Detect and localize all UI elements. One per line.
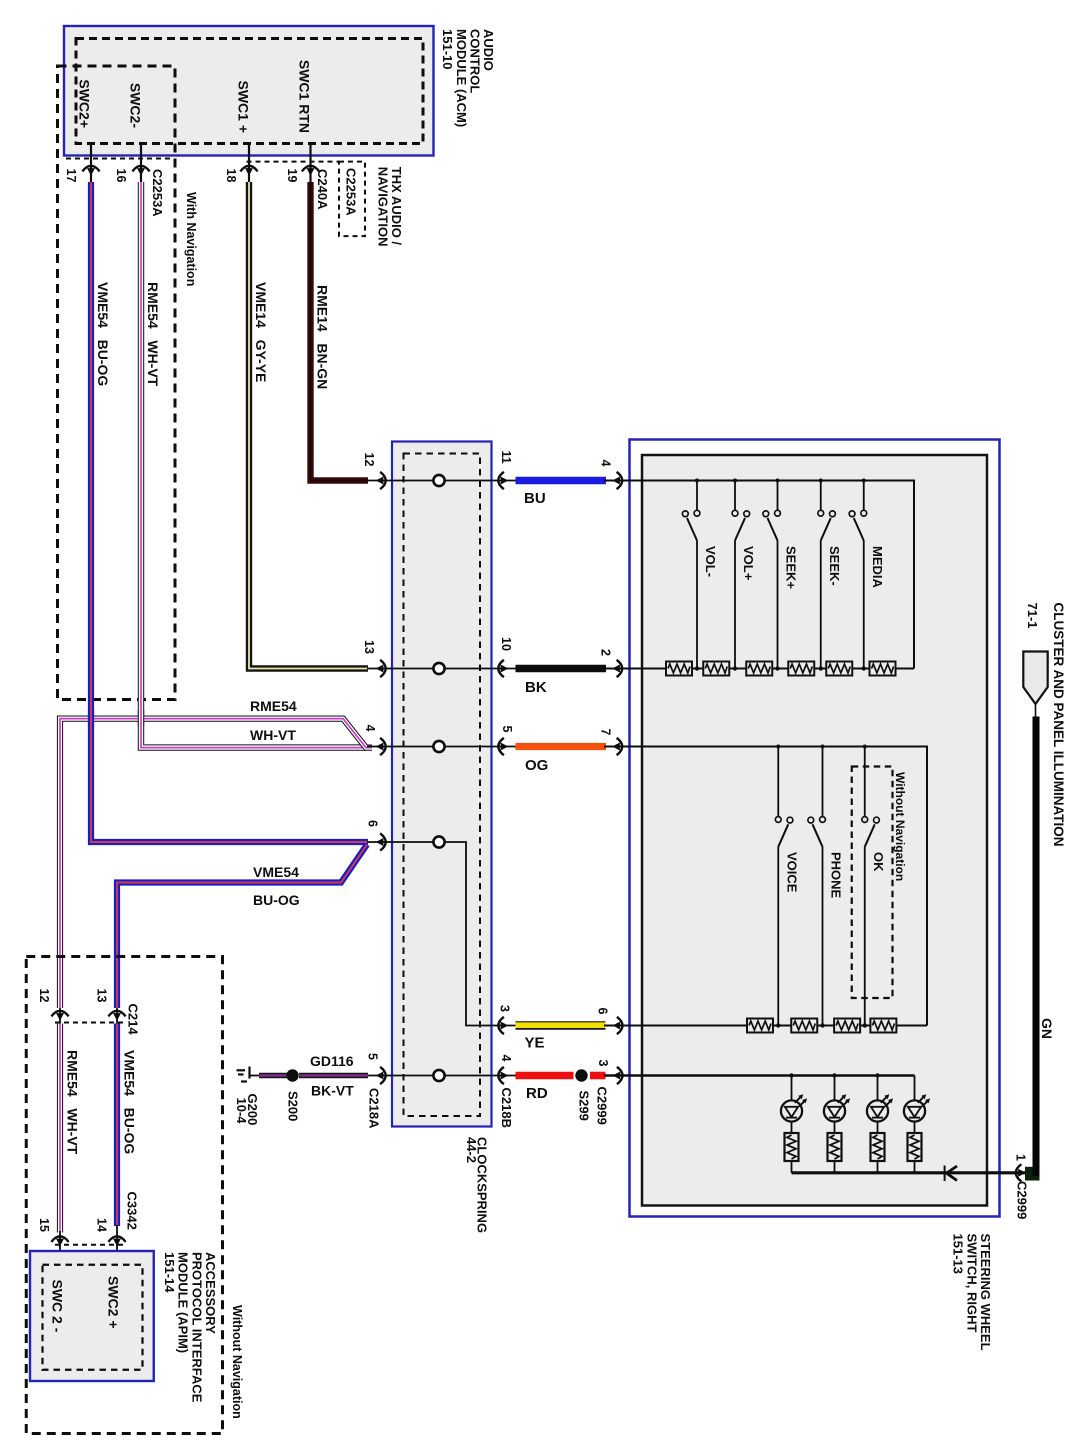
svg-text:C2999: C2999 — [1015, 1181, 1030, 1219]
arrow pin 5 right — [498, 738, 508, 755]
label THX AUDIO / NAVIGATION — [375, 167, 404, 247]
svg-text:SWC1 +: SWC1 + — [236, 80, 252, 133]
svg-text:2: 2 — [599, 649, 613, 656]
arrow pin 4 right — [498, 1067, 508, 1084]
svg-text:RME54: RME54 — [250, 698, 297, 714]
svg-text:RD: RD — [526, 1085, 548, 1102]
splice S200 — [286, 1069, 298, 1081]
LED column 2 — [824, 1076, 850, 1173]
svg-text:GN: GN — [1039, 1018, 1055, 1039]
svg-text:Without Navigation: Without Navigation — [230, 1305, 244, 1419]
resistor R3 — [746, 662, 772, 676]
svg-text:VME54 BU-OG: VME54 BU-OG — [122, 1050, 138, 1154]
svg-text:YE: YE — [525, 1035, 545, 1052]
switch SEEK- — [818, 481, 836, 669]
wire crossing overlay pin17 — [88, 710, 94, 728]
svg-text:14: 14 — [95, 1218, 109, 1232]
clockspring contact row D — [433, 836, 444, 847]
svg-text:3: 3 — [498, 1005, 512, 1012]
wire OG — [516, 743, 607, 750]
svg-text:C218B: C218B — [499, 1088, 514, 1128]
module clockspring box — [392, 442, 492, 1127]
svg-text:71-1: 71-1 — [1025, 603, 1040, 629]
svg-text:VME54 BU-OG: VME54 BU-OG — [95, 282, 111, 386]
svg-text:151-13: 151-13 — [951, 1234, 966, 1274]
svg-text:PHONE: PHONE — [829, 852, 844, 899]
wire VME54 BU-OG from ACM pin 17 — [91, 182, 368, 842]
label CLOCKSPRING 44-2 — [464, 1137, 490, 1233]
clockspring contact row A — [433, 475, 444, 486]
arrow switch pin 3 — [613, 1067, 623, 1084]
APIM pin 14 stub — [116, 1246, 118, 1265]
pin 17 arrow — [82, 166, 99, 176]
Without Navigation dashed box upper — [852, 767, 893, 999]
svg-text:11: 11 — [499, 451, 513, 464]
wire RD segment 2 — [590, 1072, 606, 1080]
arrow C2999 pin 1 — [1016, 1164, 1026, 1181]
svg-text:13: 13 — [362, 640, 376, 654]
svg-text:C3342: C3342 — [125, 1192, 140, 1230]
pentagon stub wire — [1035, 704, 1037, 717]
clockspring row B wire (pins 13-10) — [367, 668, 516, 670]
LED column 1 — [781, 1076, 807, 1173]
svg-text:SEEK-: SEEK- — [827, 546, 842, 586]
svg-text:SWC2 +: SWC2 + — [106, 1276, 122, 1329]
ground G200 symbol — [237, 1067, 261, 1082]
Without Navigation dashed option box bottom — [26, 957, 222, 1434]
svg-text:C2999: C2999 — [595, 1087, 610, 1125]
module APIM box — [30, 1251, 154, 1381]
wire stub through C214 pin 13 — [116, 1008, 118, 1024]
clockspring contact row C — [433, 741, 444, 752]
svg-text:6: 6 — [596, 1008, 610, 1015]
wire stub through C3342 pin 15 — [59, 1231, 61, 1247]
svg-text:12: 12 — [37, 989, 51, 1003]
junction dots LED row — [789, 1073, 879, 1077]
svg-text:With Navigation: With Navigation — [184, 192, 198, 286]
svg-text:C2253A: C2253A — [344, 168, 359, 216]
switch pin 4 wire bus — [604, 481, 914, 669]
svg-text:C218A: C218A — [367, 1088, 382, 1129]
APIM inner dashed box — [43, 1265, 143, 1370]
switch pin 7 wire bus — [604, 747, 927, 1026]
resistor R2 — [703, 662, 729, 676]
svg-text:6: 6 — [366, 820, 380, 827]
arrow pin 11 — [498, 472, 508, 489]
wire RME54 WH-VT lower — [57, 1024, 63, 1233]
arrow C214 pin 13 — [108, 1011, 125, 1021]
connector C240A dashed line pins 18/19 — [247, 161, 340, 163]
clockspring contact row E — [433, 1070, 444, 1081]
resistor R7 — [747, 1019, 773, 1033]
svg-text:CLUSTER AND PANEL ILLUMINATION: CLUSTER AND PANEL ILLUMINATION — [1051, 603, 1066, 847]
svg-text:1: 1 — [1014, 1154, 1028, 1161]
junction dots resistor row 1 — [695, 666, 866, 670]
label STEERING WHEEL SWITCH, RIGHT 151-13 — [951, 1234, 993, 1351]
svg-text:4: 4 — [599, 460, 613, 467]
arrow pin 4 left — [376, 738, 386, 755]
LED column 3 — [867, 1076, 893, 1173]
svg-text:3: 3 — [596, 1060, 610, 1067]
clockspring row C wire (pins 4-5) — [367, 746, 516, 748]
svg-text:GD116: GD116 — [310, 1053, 354, 1069]
pin 18 arrow — [240, 166, 257, 176]
ACM pin 19 stub wire — [309, 144, 311, 184]
ACM pin 16 stub wire — [140, 144, 142, 184]
diode D1 — [945, 1166, 957, 1182]
svg-text:VME14 GY-YE: VME14 GY-YE — [253, 282, 269, 382]
connector C2253A dashed line pins 17/16 — [66, 158, 174, 160]
connector C214 dashed line — [55, 1022, 123, 1024]
wire stub through C214 pin 12 — [59, 1008, 61, 1024]
svg-text:SWC2-: SWC2- — [128, 83, 144, 128]
junction dots bus row 2 — [776, 745, 867, 749]
connector C3342 dashed line — [55, 1244, 123, 1246]
wire VME54 BU-OG lower — [114, 1024, 120, 1227]
wire VME14 GY-YE from ACM pin 18 — [249, 182, 368, 669]
svg-text:5: 5 — [500, 726, 514, 733]
svg-text:OG: OG — [525, 757, 548, 774]
arrow switch pin 2 — [612, 660, 622, 677]
wire GN thick — [1033, 717, 1040, 1177]
arrow APIM pin 14 — [108, 1236, 125, 1246]
svg-text:BK-VT: BK-VT — [311, 1083, 354, 1099]
wire RME54 WH-VT horizontal run — [60, 719, 372, 1008]
wire stub through C3342 pin 14 — [116, 1225, 118, 1247]
svg-text:S299: S299 — [577, 1091, 592, 1121]
svg-text:BU-OG: BU-OG — [253, 892, 300, 908]
svg-text:12: 12 — [362, 453, 376, 467]
svg-text:4: 4 — [363, 725, 377, 732]
arrow pin 10 — [498, 660, 508, 677]
svg-text:RME54 WH-VT: RME54 WH-VT — [145, 282, 161, 387]
clockspring row A wire (pins 12-11) — [367, 480, 516, 482]
arrow C214 pin 12 — [51, 1011, 68, 1021]
junction dots top bus row 1 — [695, 479, 866, 483]
svg-text:151-14: 151-14 — [162, 1252, 177, 1293]
svg-text:SEEK+: SEEK+ — [784, 546, 799, 589]
label ACCESSORY PROTOCOL INTERFACE MODULE (APIM) 151-14 — [162, 1252, 218, 1403]
svg-text:44-2: 44-2 — [464, 1137, 479, 1163]
arrow pin 5 left — [376, 1067, 386, 1084]
ACM inner dashed connector box — [76, 39, 423, 144]
svg-text:19: 19 — [285, 169, 299, 183]
svg-text:C2253A: C2253A — [150, 169, 165, 217]
wire YE — [516, 1021, 606, 1030]
svg-text:13: 13 — [95, 989, 109, 1003]
wire BK — [516, 665, 607, 673]
switch pin 6 resistor row wire — [604, 1025, 927, 1027]
switch VOL+ — [732, 481, 750, 669]
resistor R10 — [870, 1019, 896, 1033]
svg-text:Without Navigation: Without Navigation — [893, 772, 907, 881]
module ACM box — [64, 26, 434, 156]
arrow pin 12 — [376, 472, 386, 489]
svg-text:WH-VT: WH-VT — [250, 727, 296, 743]
svg-text:VME54: VME54 — [253, 864, 299, 880]
svg-text:SWC 2 -: SWC 2 - — [50, 1280, 66, 1333]
switch pin 2 resistor row wire — [604, 668, 914, 670]
arrow APIM pin 15 — [51, 1236, 68, 1246]
svg-text:VOICE: VOICE — [784, 852, 799, 893]
svg-text:RME14 BN-GN: RME14 BN-GN — [315, 285, 331, 389]
switch SEEK+ — [763, 481, 781, 669]
wire BU — [516, 477, 607, 485]
connector C2253A dashed box (THX) — [339, 162, 365, 237]
clockspring row E wire (pins 5-4) — [367, 1075, 516, 1077]
ACM pin 18 stub wire — [248, 144, 250, 184]
arrow switch pin 6 — [613, 1017, 623, 1034]
off-page connector pentagon 71-1 — [1023, 652, 1047, 705]
svg-text:S200: S200 — [286, 1091, 301, 1121]
ACM pin 17 stub wire — [90, 144, 92, 184]
wire RD segment 1 — [516, 1072, 574, 1080]
APIM pin 15 stub — [59, 1246, 61, 1265]
arrow switch pin 7 — [612, 738, 622, 755]
svg-text:C240A: C240A — [315, 169, 330, 210]
pin 19 arrow — [302, 166, 319, 176]
LED bottom bus wire — [792, 1171, 1027, 1174]
svg-text:18: 18 — [224, 169, 238, 183]
svg-text:SWC1 RTN: SWC1 RTN — [297, 60, 313, 133]
label AUDIO CONTROL MODULE (ACM) 151-10 — [440, 29, 496, 127]
svg-text:10-4: 10-4 — [234, 1098, 249, 1125]
svg-text:BK: BK — [525, 679, 547, 696]
clockspring inner dashed box — [404, 454, 481, 1117]
svg-text:RME54 WH-VT: RME54 WH-VT — [65, 1050, 81, 1155]
switch MEDIA — [849, 481, 867, 669]
module steering wheel switch box — [630, 440, 1000, 1217]
resistor R8 — [791, 1019, 817, 1033]
svg-text:OK: OK — [871, 852, 886, 872]
clockspring row D wire (pin 6 to pin 3 jog) — [367, 842, 516, 1026]
resistor R6 — [870, 662, 896, 676]
clockspring contact row B — [433, 663, 444, 674]
resistor R4 — [788, 662, 814, 676]
switch OK — [862, 747, 880, 1026]
resistor R5 — [826, 662, 852, 676]
svg-text:4: 4 — [499, 1055, 513, 1062]
svg-text:SWC2+: SWC2+ — [77, 79, 93, 128]
svg-text:VOL-: VOL- — [703, 546, 718, 577]
With Navigation dashed option box — [58, 66, 176, 700]
svg-text:17: 17 — [64, 169, 78, 183]
wire RME54 WH-VT from ACM pin 16 — [141, 182, 366, 748]
svg-text:151-10: 151-10 — [440, 29, 455, 69]
wire VME54 BU-OG lower run to APIM branch — [117, 845, 367, 1009]
switch PHONE — [808, 747, 826, 1026]
wire crossing overlay pin16 — [138, 710, 144, 726]
svg-text:5: 5 — [366, 1053, 380, 1060]
arrow pin 3 right — [498, 1017, 508, 1034]
GN wire corner block — [1025, 1167, 1040, 1181]
switch pin 3 LED row wire — [604, 1074, 915, 1076]
resistor R9 — [834, 1019, 860, 1033]
LED column 4 — [904, 1076, 930, 1173]
wire GD116 BK-VT segment 2 — [299, 1073, 368, 1079]
svg-text:C214: C214 — [126, 1004, 141, 1036]
junction dots resistor row 2 — [776, 1023, 867, 1027]
arrow switch pin 4 — [612, 472, 622, 489]
svg-text:7: 7 — [599, 729, 613, 736]
wire GD116 BK-VT segment 1 — [259, 1073, 287, 1079]
svg-text:VOL+: VOL+ — [741, 546, 756, 581]
svg-text:15: 15 — [37, 1218, 51, 1232]
arrow pin 13 — [376, 660, 386, 677]
svg-text:MEDIA: MEDIA — [870, 546, 885, 589]
resistor R1 — [666, 662, 692, 676]
svg-text:BU: BU — [524, 490, 546, 507]
splice S299 — [575, 1069, 587, 1081]
switch inner black box — [642, 455, 987, 1206]
arrow pin 6 left — [376, 833, 386, 850]
svg-text:10: 10 — [499, 637, 513, 651]
label G200 10-4 — [234, 1094, 260, 1126]
svg-text:16: 16 — [114, 169, 128, 183]
pin 16 arrow — [132, 166, 149, 176]
switch VOICE — [775, 747, 793, 1026]
svg-text:NAVIGATION: NAVIGATION — [375, 167, 390, 247]
switch VOL- — [682, 481, 700, 669]
wire RME14 BN-GN from ACM pin 19 — [311, 182, 369, 481]
